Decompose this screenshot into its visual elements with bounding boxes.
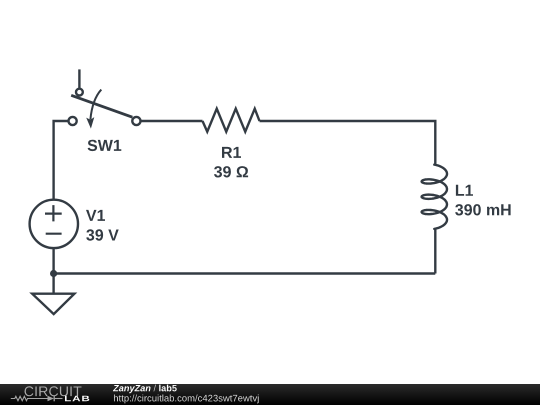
- footer title lab5: [159, 385, 177, 392]
- junction dot: [50, 270, 57, 277]
- switch SW1 blade: [71, 95, 132, 117]
- label R1 value: [214, 166, 248, 177]
- wire resistor to top-right corner and inductor top lead: [260, 121, 436, 164]
- label SW1: [88, 140, 122, 151]
- logo LAB: [65, 396, 89, 402]
- wire left terminal to V1 top: [54, 121, 69, 199]
- footer url: [114, 395, 259, 404]
- wire inductor bottom lead: [434, 230, 436, 274]
- switch SW1 arrowhead: [86, 117, 94, 129]
- footer title slash: [154, 385, 157, 392]
- label V1 value: [86, 229, 118, 240]
- ground: [32, 294, 74, 314]
- wire ground stub: [52, 274, 54, 294]
- voltage source V1: [30, 200, 78, 248]
- inductor L1: [422, 165, 447, 229]
- wire right terminal to resistor: [141, 120, 203, 122]
- footer title ZanyZan: [113, 385, 151, 393]
- logo diode triangle: [48, 396, 54, 402]
- logo resistor squiggle: [11, 396, 63, 402]
- switch SW1 arc arrow: [90, 90, 101, 120]
- label V1: [86, 210, 105, 221]
- footer bar: [0, 384, 540, 405]
- wire V1 bottom to junction: [52, 249, 54, 274]
- wire switch top stub: [78, 69, 80, 88]
- label R1: [222, 147, 241, 158]
- label L1 value: [455, 204, 510, 215]
- logo CIRCUIT: [25, 386, 82, 396]
- resistor R1: [203, 109, 260, 132]
- label L1: [456, 185, 473, 196]
- wire bottom: [54, 272, 436, 274]
- logo diode bar and line: [53, 396, 55, 402]
- switch SW1 terminal circles: [69, 89, 141, 125]
